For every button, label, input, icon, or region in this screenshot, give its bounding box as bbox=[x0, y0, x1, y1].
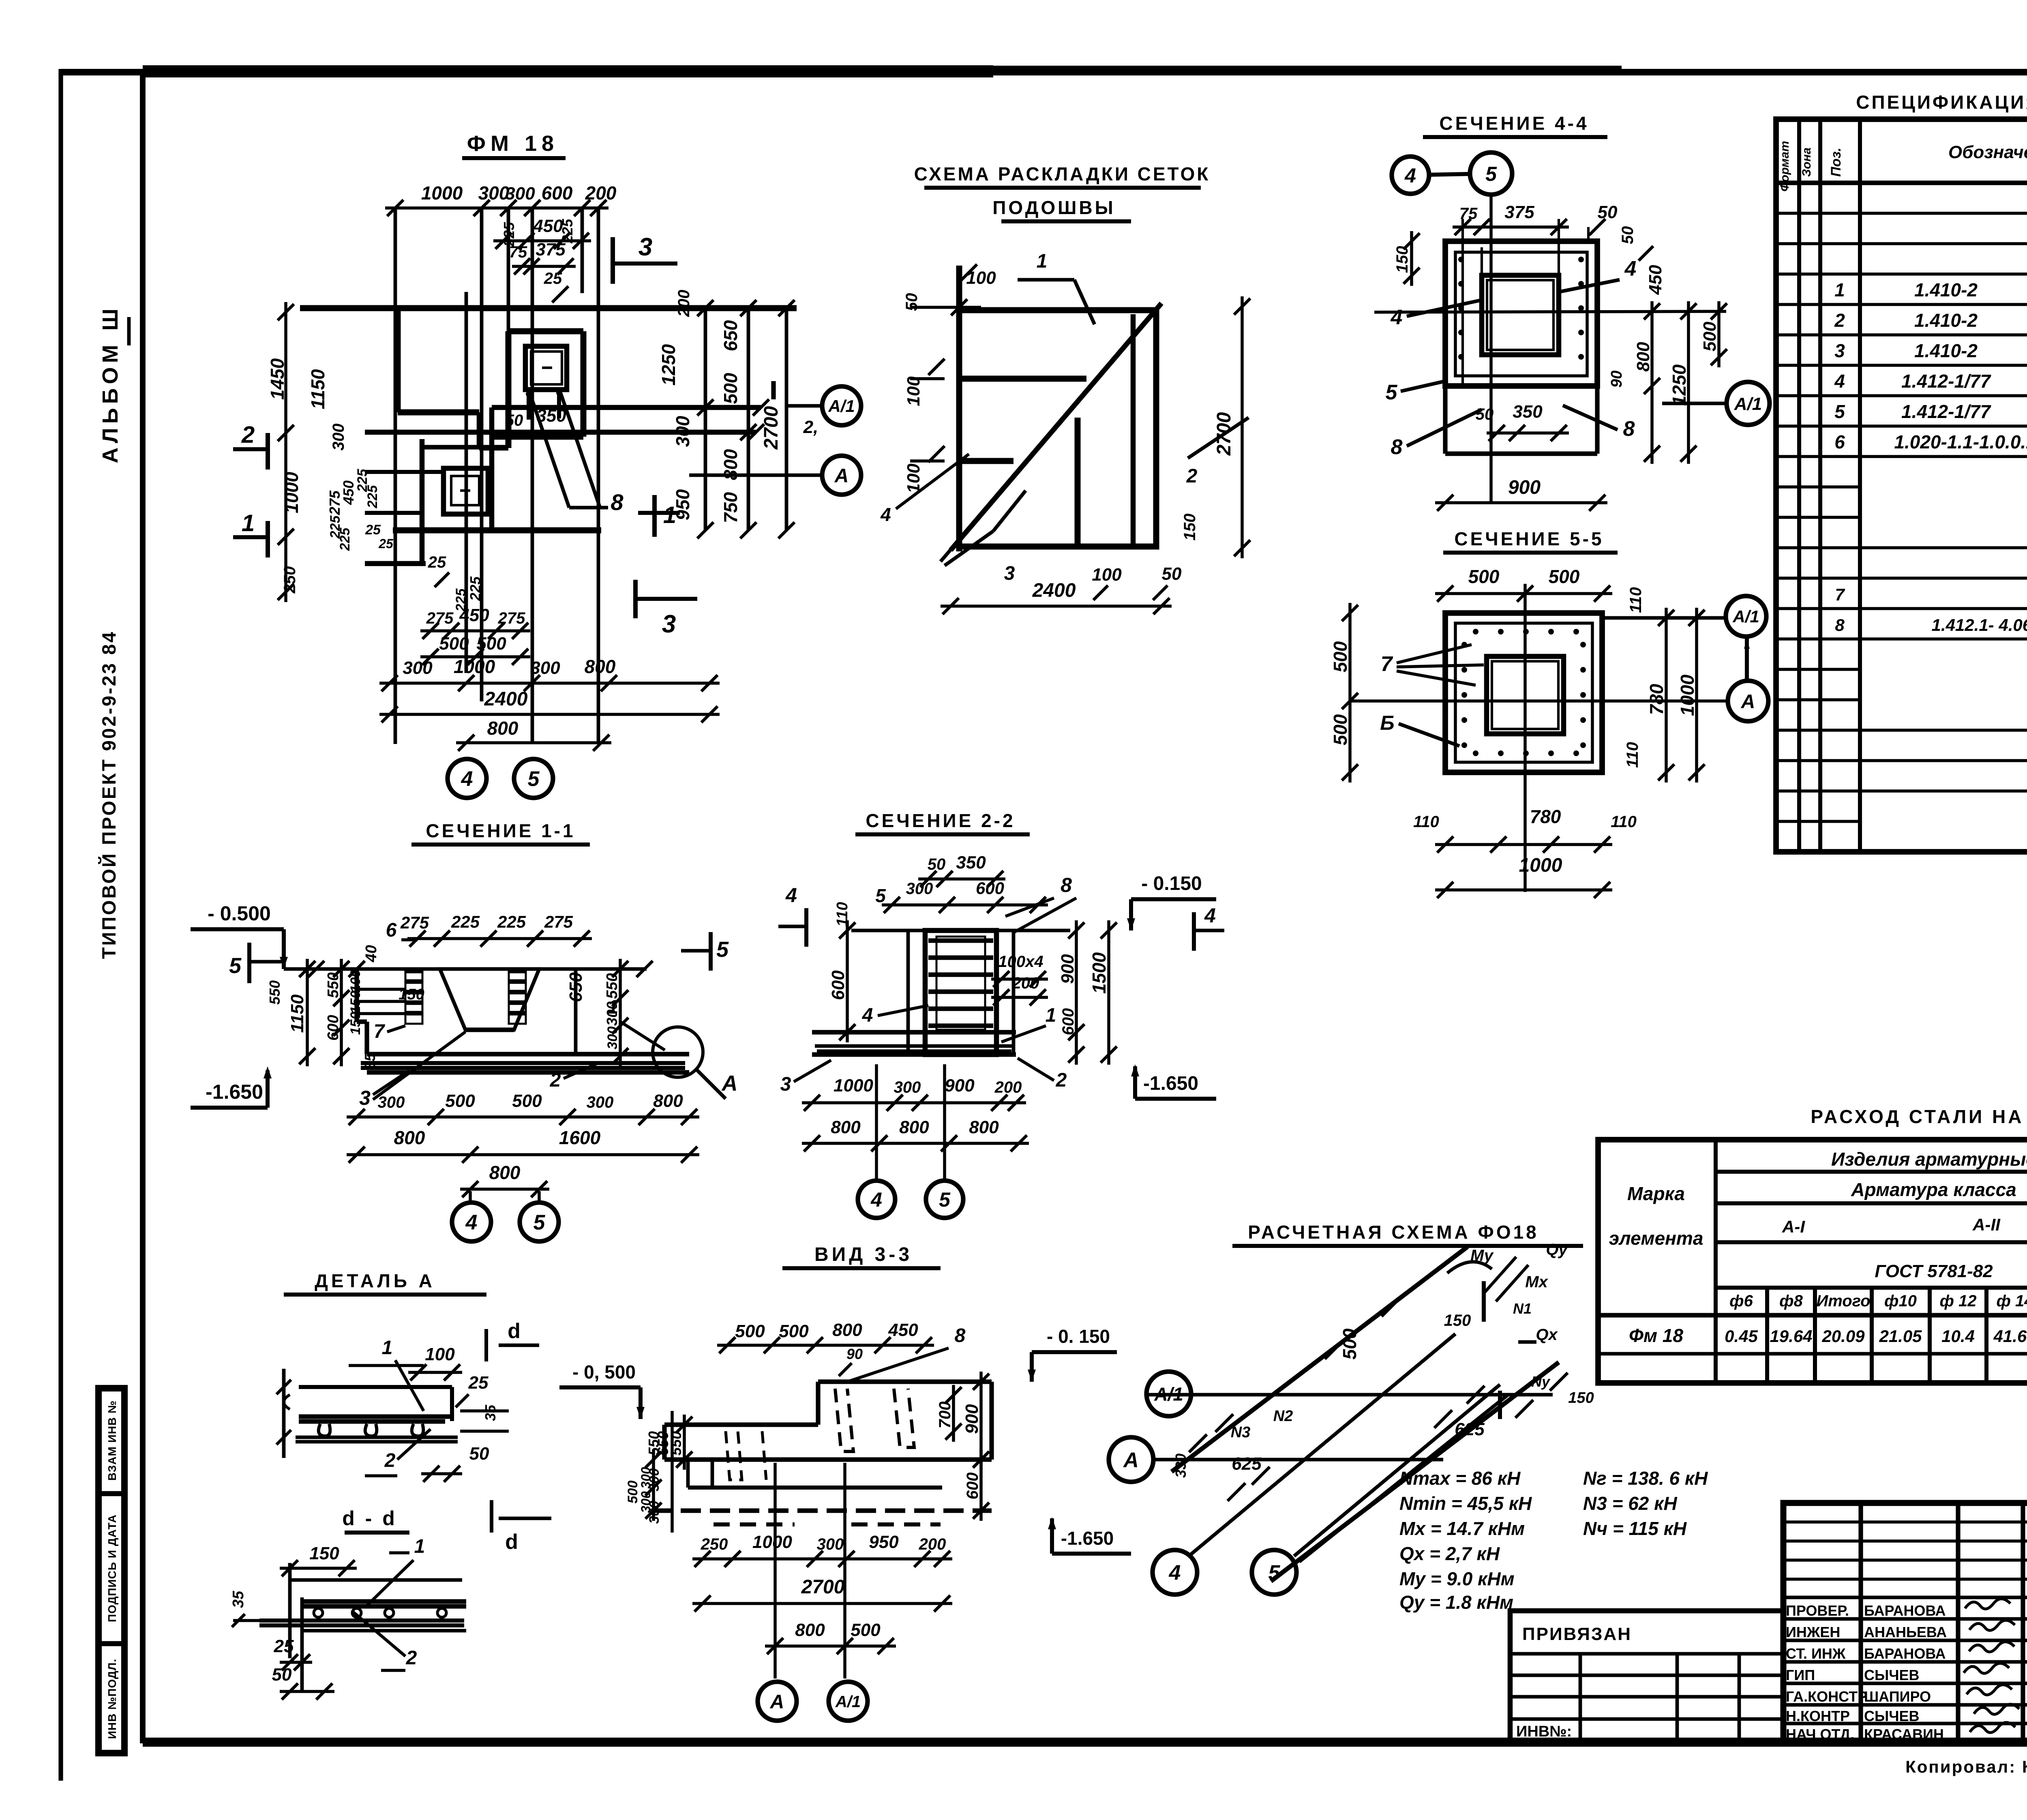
svg-text:150: 150 bbox=[309, 1543, 339, 1563]
svg-text:300: 300 bbox=[672, 416, 693, 447]
svg-text:600: 600 bbox=[976, 879, 1004, 898]
svg-text:700: 700 bbox=[936, 1402, 954, 1429]
svg-text:ИНВ№:: ИНВ№: bbox=[1516, 1723, 1572, 1740]
svg-text:СПЕЦИФИКАЦИЯ МОНОЛИТНОГО ФУН: СПЕЦИФИКАЦИЯ МОНОЛИТНОГО ФУНДАМЕНТА ФМ 1… bbox=[1856, 92, 2027, 113]
svg-text:550: 550 bbox=[645, 1431, 662, 1456]
svg-text:4: 4 bbox=[461, 767, 473, 791]
svg-text:225: 225 bbox=[467, 576, 484, 601]
svg-text:150: 150 bbox=[1393, 246, 1411, 273]
svg-text:100х4: 100х4 bbox=[998, 953, 1043, 971]
svg-text:1250: 1250 bbox=[658, 344, 679, 386]
svg-text:100: 100 bbox=[425, 1344, 455, 1364]
svg-text:90: 90 bbox=[846, 1346, 863, 1362]
svg-text:10.4: 10.4 bbox=[1941, 1327, 1975, 1346]
svg-text:Nг = 138. 6 кН: Nг = 138. 6 кН bbox=[1583, 1468, 1708, 1489]
svg-text:300: 300 bbox=[604, 1001, 620, 1026]
svg-text:КРАСАВИН: КРАСАВИН bbox=[1864, 1726, 1944, 1743]
svg-text:ТИПОВОЙ ПРОЕКТ 902-9-23 84: ТИПОВОЙ ПРОЕКТ 902-9-23 84 bbox=[98, 630, 120, 959]
svg-text:1000: 1000 bbox=[834, 1076, 873, 1095]
svg-text:1: 1 bbox=[1834, 279, 1845, 300]
svg-text:1.412-1/77: 1.412-1/77 bbox=[1901, 371, 1991, 392]
svg-text:ВЗАМ ИНВ №: ВЗАМ ИНВ № bbox=[106, 1400, 118, 1481]
svg-text:ПОДОШВЫ: ПОДОШВЫ bbox=[992, 197, 1115, 218]
svg-text:7: 7 bbox=[1835, 585, 1845, 604]
svg-text:350: 350 bbox=[956, 853, 986, 872]
svg-text:625: 625 bbox=[1455, 1419, 1485, 1439]
svg-text:110: 110 bbox=[1611, 813, 1637, 831]
svg-text:50: 50 bbox=[469, 1444, 489, 1464]
svg-text:50: 50 bbox=[505, 412, 523, 429]
svg-text:250: 250 bbox=[701, 1535, 728, 1553]
svg-text:Nmax = 86 кН: Nmax = 86 кН bbox=[1399, 1468, 1521, 1489]
svg-text:4: 4 bbox=[880, 504, 891, 525]
svg-text:300: 300 bbox=[378, 1093, 405, 1111]
svg-text:1.410-2: 1.410-2 bbox=[1914, 340, 1978, 361]
svg-text:300: 300 bbox=[817, 1535, 844, 1553]
svg-text:500: 500 bbox=[1700, 322, 1720, 352]
svg-text:110: 110 bbox=[1624, 742, 1641, 768]
svg-text:150: 150 bbox=[348, 991, 363, 1014]
svg-text:8: 8 bbox=[1835, 615, 1845, 635]
svg-text:1: 1 bbox=[242, 510, 255, 536]
svg-text:600: 600 bbox=[542, 182, 573, 204]
svg-text:6: 6 bbox=[1834, 431, 1845, 452]
svg-text:500: 500 bbox=[439, 634, 469, 654]
svg-text:2: 2 bbox=[384, 1450, 396, 1471]
svg-text:300: 300 bbox=[530, 658, 560, 678]
svg-text:1250: 1250 bbox=[1669, 364, 1690, 406]
svg-text:6: 6 bbox=[386, 920, 397, 941]
svg-text:50: 50 bbox=[1619, 226, 1637, 244]
svg-text:1.410-2: 1.410-2 bbox=[1914, 310, 1978, 331]
svg-text:75: 75 bbox=[1459, 205, 1478, 223]
svg-text:Формат: Формат bbox=[1778, 141, 1791, 191]
svg-text:СЫЧЕВ: СЫЧЕВ bbox=[1864, 1708, 1920, 1724]
svg-text:5: 5 bbox=[1485, 163, 1497, 185]
svg-text:Мy = 9.0 кНм: Мy = 9.0 кНм bbox=[1399, 1568, 1515, 1589]
svg-text:ПОДПИСЬ И ДАТА: ПОДПИСЬ И ДАТА bbox=[106, 1514, 118, 1622]
svg-text:225: 225 bbox=[497, 912, 526, 931]
svg-text:2700: 2700 bbox=[801, 1576, 845, 1598]
svg-text:2: 2 bbox=[1186, 465, 1198, 487]
svg-text:19.64: 19.64 bbox=[1770, 1327, 1812, 1346]
svg-text:ф10: ф10 bbox=[1884, 1292, 1917, 1310]
svg-text:2: 2 bbox=[550, 1070, 561, 1091]
svg-text:300: 300 bbox=[478, 182, 510, 204]
svg-text:А: А bbox=[770, 1691, 784, 1713]
svg-text:5: 5 bbox=[939, 1188, 951, 1211]
svg-text:8: 8 bbox=[1623, 417, 1635, 441]
svg-text:500: 500 bbox=[625, 1481, 641, 1504]
svg-text:ф6: ф6 bbox=[1729, 1292, 1753, 1310]
svg-text:А/1: А/1 bbox=[1732, 607, 1759, 626]
svg-text:35: 35 bbox=[362, 1053, 378, 1070]
svg-text:300: 300 bbox=[505, 184, 535, 204]
svg-text:ДЕТАЛЬ А: ДЕТАЛЬ А bbox=[315, 1270, 435, 1291]
svg-text:ИНВ №ПОДЛ.: ИНВ №ПОДЛ. bbox=[106, 1659, 118, 1739]
svg-text:БАРАНОВА: БАРАНОВА bbox=[1864, 1645, 1946, 1662]
svg-text:300: 300 bbox=[906, 880, 933, 898]
svg-text:800: 800 bbox=[899, 1117, 929, 1137]
svg-text:1: 1 bbox=[1046, 1005, 1056, 1026]
svg-text:1150: 1150 bbox=[287, 994, 307, 1033]
svg-text:110: 110 bbox=[1413, 813, 1439, 831]
svg-text:N3 = 62 кН: N3 = 62 кН bbox=[1583, 1493, 1677, 1514]
svg-text:А/1: А/1 bbox=[828, 397, 855, 416]
svg-text:А/1: А/1 bbox=[1734, 394, 1762, 414]
svg-text:5: 5 bbox=[1386, 381, 1398, 404]
svg-text:Зона: Зона bbox=[1800, 148, 1813, 177]
svg-text:41.63: 41.63 bbox=[1993, 1327, 2027, 1346]
svg-text:350: 350 bbox=[1513, 402, 1543, 422]
svg-text:900: 900 bbox=[1058, 954, 1078, 984]
svg-text:225: 225 bbox=[365, 485, 380, 509]
svg-text:25: 25 bbox=[428, 553, 446, 571]
svg-text:4: 4 bbox=[1624, 257, 1637, 281]
svg-text:1000: 1000 bbox=[281, 472, 302, 513]
svg-text:225: 225 bbox=[337, 527, 353, 551]
svg-text:4: 4 bbox=[785, 884, 797, 907]
svg-text:d: d bbox=[508, 1319, 521, 1343]
svg-text:110: 110 bbox=[1627, 587, 1645, 613]
svg-text:2,: 2, bbox=[803, 417, 819, 437]
svg-text:800: 800 bbox=[795, 1620, 825, 1640]
svg-text:НАЧ ОТД.: НАЧ ОТД. bbox=[1786, 1726, 1854, 1743]
svg-text:780: 780 bbox=[1646, 684, 1667, 715]
svg-text:N2: N2 bbox=[1273, 1408, 1293, 1425]
svg-text:250: 250 bbox=[281, 566, 299, 594]
svg-text:4: 4 bbox=[1404, 164, 1416, 187]
svg-text:780: 780 bbox=[1530, 806, 1561, 827]
svg-text:600: 600 bbox=[828, 970, 848, 1000]
svg-text:1: 1 bbox=[382, 1337, 393, 1359]
svg-text:4: 4 bbox=[1204, 904, 1216, 927]
svg-text:ф 12: ф 12 bbox=[1940, 1292, 1977, 1310]
svg-text:1000: 1000 bbox=[421, 182, 463, 204]
svg-text:3: 3 bbox=[359, 1087, 371, 1109]
svg-text:N3: N3 bbox=[1231, 1424, 1251, 1441]
svg-text:500: 500 bbox=[1339, 1328, 1360, 1359]
svg-text:450: 450 bbox=[888, 1320, 918, 1340]
svg-text:800: 800 bbox=[1633, 342, 1653, 372]
svg-text:-1.650: -1.650 bbox=[1143, 1073, 1198, 1094]
svg-text:-1.650: -1.650 bbox=[1061, 1528, 1114, 1549]
svg-text:1000: 1000 bbox=[752, 1532, 792, 1552]
svg-text:А: А bbox=[834, 465, 849, 487]
svg-text:800: 800 bbox=[585, 656, 616, 677]
svg-text:90: 90 bbox=[1608, 371, 1625, 388]
svg-text:Mх = 14.7 кНм: Mх = 14.7 кНм bbox=[1399, 1518, 1525, 1539]
svg-text:625: 625 bbox=[1232, 1454, 1262, 1474]
svg-text:Арматура класса: Арматура класса bbox=[1851, 1179, 2016, 1200]
svg-text:d: d bbox=[505, 1530, 518, 1554]
svg-text:ПРОВЕР.: ПРОВЕР. bbox=[1786, 1602, 1849, 1619]
svg-text:1500: 1500 bbox=[1088, 952, 1110, 994]
svg-text:5: 5 bbox=[716, 937, 729, 962]
svg-text:4: 4 bbox=[1391, 306, 1403, 329]
svg-text:50: 50 bbox=[272, 1665, 292, 1685]
svg-text:- 0.150: - 0.150 bbox=[1141, 873, 1202, 894]
svg-text:500: 500 bbox=[779, 1321, 809, 1341]
svg-text:375: 375 bbox=[1504, 202, 1534, 222]
svg-text:А: А bbox=[721, 1071, 738, 1095]
svg-text:100: 100 bbox=[904, 376, 924, 406]
svg-text:БАРАНОВА: БАРАНОВА bbox=[1864, 1602, 1946, 1619]
svg-text:1600: 1600 bbox=[559, 1127, 601, 1148]
svg-text:2700: 2700 bbox=[761, 406, 782, 450]
svg-text:5: 5 bbox=[534, 1211, 546, 1235]
svg-text:ГИП: ГИП bbox=[1786, 1667, 1815, 1683]
svg-text:3: 3 bbox=[780, 1074, 791, 1095]
svg-text:5: 5 bbox=[229, 954, 242, 978]
svg-text:950: 950 bbox=[869, 1532, 899, 1552]
svg-text:8: 8 bbox=[1391, 435, 1403, 459]
svg-text:Nу: Nу bbox=[1531, 1373, 1551, 1390]
svg-text:АЛЬБОМ Ш: АЛЬБОМ Ш bbox=[98, 304, 122, 463]
svg-text:25: 25 bbox=[378, 536, 394, 551]
svg-text:3: 3 bbox=[1834, 340, 1845, 361]
svg-text:500: 500 bbox=[445, 1091, 475, 1111]
svg-text:500: 500 bbox=[512, 1091, 542, 1111]
svg-text:450: 450 bbox=[340, 480, 357, 505]
svg-text:600: 600 bbox=[1059, 1008, 1077, 1035]
svg-text:25: 25 bbox=[274, 1636, 294, 1656]
svg-text:300: 300 bbox=[647, 1468, 662, 1492]
svg-text:1000: 1000 bbox=[1677, 674, 1698, 716]
svg-text:Н.КОНТР: Н.КОНТР bbox=[1786, 1708, 1850, 1724]
svg-text:225: 225 bbox=[451, 912, 480, 931]
svg-text:800: 800 bbox=[489, 1162, 521, 1183]
svg-text:8: 8 bbox=[955, 1325, 966, 1346]
svg-text:СЕЧЕНИЕ 5-5: СЕЧЕНИЕ 5-5 bbox=[1454, 528, 1604, 549]
svg-text:А-II: А-II bbox=[1972, 1215, 2001, 1234]
svg-text:ИНЖЕН: ИНЖЕН bbox=[1786, 1624, 1840, 1640]
svg-text:- 0. 150: - 0. 150 bbox=[1047, 1326, 1110, 1347]
svg-text:2: 2 bbox=[241, 422, 255, 448]
svg-text:40: 40 bbox=[363, 945, 380, 963]
svg-text:ШАПИРО: ШАПИРО bbox=[1864, 1688, 1931, 1705]
svg-text:2: 2 bbox=[1056, 1070, 1067, 1091]
svg-text:300: 300 bbox=[587, 1093, 614, 1111]
svg-text:800: 800 bbox=[831, 1117, 861, 1137]
svg-text:3: 3 bbox=[1004, 563, 1015, 584]
svg-text:300: 300 bbox=[647, 1501, 662, 1524]
svg-text:Поз.: Поз. bbox=[1828, 148, 1844, 177]
svg-text:7: 7 bbox=[1381, 652, 1393, 676]
svg-text:35: 35 bbox=[482, 1404, 499, 1421]
svg-text:Б: Б bbox=[1380, 712, 1394, 734]
svg-text:1.410-2: 1.410-2 bbox=[1914, 279, 1978, 300]
svg-text:АНАНЬЕВА: АНАНЬЕВА bbox=[1864, 1624, 1947, 1640]
svg-text:Qх = 2,7 кН: Qх = 2,7 кН bbox=[1399, 1543, 1500, 1564]
svg-text:20.09: 20.09 bbox=[1821, 1327, 1865, 1346]
svg-text:7: 7 bbox=[374, 1021, 386, 1042]
svg-text:600: 600 bbox=[325, 1015, 342, 1040]
svg-text:3: 3 bbox=[639, 233, 652, 261]
svg-text:1.412-1/77: 1.412-1/77 bbox=[1901, 401, 1991, 422]
svg-text:800: 800 bbox=[832, 1320, 862, 1340]
svg-text:5: 5 bbox=[1834, 401, 1845, 422]
svg-text:375: 375 bbox=[536, 240, 566, 259]
svg-text:500: 500 bbox=[851, 1620, 881, 1640]
svg-text:1: 1 bbox=[1037, 251, 1048, 272]
svg-text:150: 150 bbox=[348, 1012, 363, 1035]
svg-text:550: 550 bbox=[266, 980, 283, 1005]
svg-text:25: 25 bbox=[544, 270, 562, 287]
svg-text:650: 650 bbox=[566, 972, 586, 1002]
svg-text:100: 100 bbox=[1092, 565, 1122, 585]
svg-text:Обозначение: Обозначение bbox=[1948, 142, 2027, 162]
svg-text:110: 110 bbox=[834, 902, 851, 927]
svg-text:800: 800 bbox=[487, 718, 519, 739]
svg-text:600: 600 bbox=[964, 1473, 981, 1500]
svg-text:РАСХОД СТАЛИ НА ОДИН ЭЛЕМЕ: РАСХОД СТАЛИ НА ОДИН ЭЛЕМЕНТ, КГ bbox=[1811, 1106, 2027, 1127]
svg-text:150: 150 bbox=[1444, 1312, 1471, 1329]
svg-text:Копировал: Коршунова: Копировал: Коршунова bbox=[1905, 1757, 2027, 1776]
svg-text:550: 550 bbox=[325, 972, 342, 998]
svg-text:75: 75 bbox=[509, 243, 527, 261]
svg-text:-1.650: -1.650 bbox=[206, 1080, 263, 1103]
svg-text:550: 550 bbox=[604, 973, 621, 999]
svg-text:1450: 1450 bbox=[267, 358, 288, 400]
svg-text:50: 50 bbox=[928, 855, 946, 873]
svg-text:100: 100 bbox=[348, 970, 363, 993]
svg-text:0.45: 0.45 bbox=[1725, 1327, 1758, 1346]
svg-text:500: 500 bbox=[720, 373, 741, 404]
svg-text:50: 50 bbox=[1598, 202, 1618, 222]
svg-text:СХЕМА РАСКЛАДКИ СЕТОК: СХЕМА РАСКЛАДКИ СЕТОК bbox=[914, 163, 1211, 184]
svg-text:2: 2 bbox=[1834, 310, 1845, 331]
svg-text:200: 200 bbox=[585, 182, 617, 204]
svg-text:СЕЧЕНИЕ 1-1: СЕЧЕНИЕ 1-1 bbox=[426, 820, 575, 841]
svg-text:элемента: элемента bbox=[1609, 1228, 1703, 1249]
svg-text:150: 150 bbox=[1568, 1389, 1594, 1406]
svg-text:450: 450 bbox=[533, 216, 563, 236]
svg-text:Изделия арматурные: Изделия арматурные bbox=[1831, 1149, 2027, 1170]
svg-text:275: 275 bbox=[498, 609, 525, 627]
svg-text:1000: 1000 bbox=[1519, 855, 1562, 876]
svg-text:1: 1 bbox=[414, 1536, 425, 1557]
svg-text:800: 800 bbox=[969, 1117, 999, 1137]
svg-text:21.05: 21.05 bbox=[1879, 1327, 1922, 1346]
svg-text:200: 200 bbox=[994, 1078, 1022, 1096]
svg-text:ВИД 3-3: ВИД 3-3 bbox=[814, 1244, 913, 1265]
svg-text:3: 3 bbox=[662, 610, 676, 638]
svg-text:200: 200 bbox=[919, 1535, 946, 1553]
svg-text:1000: 1000 bbox=[454, 656, 495, 677]
svg-text:Qх: Qх bbox=[1536, 1326, 1558, 1344]
svg-text:900: 900 bbox=[962, 1404, 982, 1434]
svg-text:А/1: А/1 bbox=[1154, 1384, 1183, 1405]
svg-text:500: 500 bbox=[1549, 566, 1580, 587]
svg-text:А: А bbox=[1741, 691, 1755, 712]
svg-text:50: 50 bbox=[1476, 405, 1494, 423]
svg-text:8: 8 bbox=[1061, 874, 1072, 896]
svg-text:750: 750 bbox=[720, 492, 741, 523]
svg-text:Qу: Qу bbox=[1546, 1241, 1568, 1258]
svg-text:800: 800 bbox=[653, 1091, 683, 1111]
svg-text:450: 450 bbox=[459, 605, 489, 625]
svg-text:РАСЧЕТНАЯ СХЕМА ФО18: РАСЧЕТНАЯ СХЕМА ФО18 bbox=[1248, 1222, 1539, 1243]
svg-text:900: 900 bbox=[1508, 477, 1541, 498]
svg-text:ГА.КОНСТР: ГА.КОНСТР bbox=[1786, 1688, 1867, 1705]
svg-text:900: 900 bbox=[945, 1076, 975, 1095]
svg-text:СЕЧЕНИЕ 4-4: СЕЧЕНИЕ 4-4 bbox=[1439, 113, 1589, 134]
svg-text:2: 2 bbox=[406, 1647, 417, 1669]
svg-text:330: 330 bbox=[1172, 1453, 1189, 1478]
svg-text:Qy = 1.8 кНм: Qy = 1.8 кНм bbox=[1399, 1592, 1513, 1613]
svg-text:N1: N1 bbox=[1513, 1300, 1532, 1317]
svg-text:СЕЧЕНИЕ 2-2: СЕЧЕНИЕ 2-2 bbox=[866, 810, 1015, 831]
svg-text:А: А bbox=[1123, 1449, 1139, 1472]
svg-text:- 0, 500: - 0, 500 bbox=[572, 1361, 636, 1383]
svg-text:2400: 2400 bbox=[484, 688, 528, 710]
svg-text:Фм 18: Фм 18 bbox=[1629, 1325, 1683, 1346]
svg-text:8: 8 bbox=[611, 489, 624, 515]
svg-text:25: 25 bbox=[365, 522, 381, 538]
svg-text:Мх: Мх bbox=[1525, 1273, 1548, 1291]
svg-text:500: 500 bbox=[1468, 566, 1500, 587]
svg-text:500: 500 bbox=[735, 1321, 765, 1341]
svg-text:275: 275 bbox=[426, 609, 454, 627]
svg-text:Итого: Итого bbox=[1816, 1292, 1870, 1310]
svg-text:500: 500 bbox=[1330, 714, 1351, 745]
svg-text:35: 35 bbox=[230, 1591, 247, 1608]
svg-text:2400: 2400 bbox=[1032, 580, 1076, 601]
svg-text:ф8: ф8 bbox=[1779, 1292, 1803, 1310]
svg-text:d - d: d - d bbox=[342, 1507, 397, 1530]
svg-text:СЫЧЕВ: СЫЧЕВ bbox=[1864, 1667, 1920, 1683]
svg-text:Nч = 115 кН: Nч = 115 кН bbox=[1583, 1518, 1687, 1539]
svg-text:4: 4 bbox=[862, 1005, 873, 1026]
svg-text:25: 25 bbox=[468, 1373, 489, 1393]
svg-text:275: 275 bbox=[400, 913, 429, 932]
svg-text:ф 14: ф 14 bbox=[1997, 1292, 2027, 1310]
svg-text:ГОСТ 5781-82: ГОСТ 5781-82 bbox=[1875, 1261, 1993, 1281]
svg-text:- 0.500: - 0.500 bbox=[208, 902, 271, 925]
svg-text:200: 200 bbox=[675, 290, 693, 317]
svg-text:300: 300 bbox=[894, 1078, 921, 1096]
svg-text:4: 4 bbox=[465, 1211, 478, 1235]
svg-text:300: 300 bbox=[403, 658, 433, 678]
svg-text:1.412.1- 4.060: 1.412.1- 4.060 bbox=[1932, 615, 2027, 635]
svg-text:5: 5 bbox=[528, 767, 540, 791]
svg-text:650: 650 bbox=[720, 320, 741, 351]
svg-text:300: 300 bbox=[330, 424, 347, 451]
svg-text:150: 150 bbox=[1181, 514, 1199, 541]
svg-text:150: 150 bbox=[399, 986, 424, 1003]
svg-text:1150: 1150 bbox=[307, 369, 328, 409]
svg-text:ФМ 18: ФМ 18 bbox=[467, 131, 559, 156]
svg-text:275: 275 bbox=[544, 912, 573, 931]
svg-text:300: 300 bbox=[605, 1027, 620, 1050]
svg-text:Марка: Марка bbox=[1627, 1183, 1685, 1204]
svg-text:ПРИВЯЗАН: ПРИВЯЗАН bbox=[1522, 1624, 1632, 1644]
svg-text:500: 500 bbox=[1330, 641, 1351, 672]
svg-text:450: 450 bbox=[1646, 265, 1665, 295]
svg-text:СТ. ИНЖ: СТ. ИНЖ bbox=[1786, 1645, 1846, 1662]
svg-text:Nmin = 45,5 кН: Nmin = 45,5 кН bbox=[1399, 1493, 1532, 1514]
svg-text:5: 5 bbox=[1268, 1561, 1281, 1585]
svg-text:50: 50 bbox=[903, 293, 921, 311]
svg-text:4: 4 bbox=[870, 1188, 882, 1211]
svg-text:5: 5 bbox=[875, 885, 886, 906]
svg-text:800: 800 bbox=[394, 1127, 425, 1148]
svg-text:50: 50 bbox=[1162, 564, 1182, 584]
svg-text:350: 350 bbox=[536, 406, 566, 426]
svg-text:4: 4 bbox=[1834, 371, 1845, 392]
svg-text:500: 500 bbox=[476, 634, 506, 654]
